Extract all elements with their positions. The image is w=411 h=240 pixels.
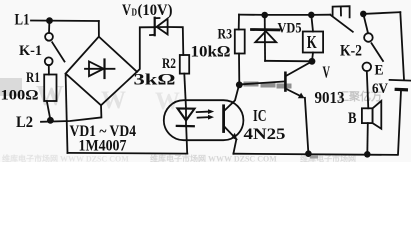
zener diode VD bbox=[154, 18, 156, 36]
resistor R2 bbox=[180, 55, 189, 74]
wire VD5 to collector node bbox=[265, 60, 312, 63]
wire R3 bottom to junction bbox=[238, 54, 240, 85]
relay coil K bbox=[311, 15, 313, 32]
wire battery to rail bbox=[398, 91, 401, 155]
optocoupler U1 body bbox=[164, 100, 244, 140]
phototransistor emitter bbox=[225, 127, 237, 140]
switch K-2 bbox=[363, 14, 368, 33]
svg-text:1M4007: 1M4007 bbox=[79, 138, 127, 155]
svg-text:K: K bbox=[307, 32, 317, 52]
svg-text:V: V bbox=[122, 2, 131, 19]
phototransistor base bar bbox=[222, 106, 225, 132]
watermark dashes middle-right bbox=[246, 84, 289, 86]
transistor base bar bbox=[284, 73, 287, 91]
transistor V 9013 collector bbox=[286, 61, 312, 75]
wire R1 to L2 line bbox=[47, 101, 50, 119]
optocoupler LED bbox=[178, 108, 195, 120]
wire L1 top rail bbox=[31, 20, 99, 23]
node collector junction bbox=[236, 81, 243, 88]
wire opto emitter to rail bbox=[233, 140, 236, 154]
bridge rectifier VD1-VD4 diamond bbox=[66, 37, 137, 106]
transistor emitter bbox=[286, 89, 302, 97]
svg-text:(10V): (10V) bbox=[138, 2, 173, 19]
node emitter/rail bbox=[305, 150, 312, 157]
wire bottom rail left (bridge ground) bbox=[68, 152, 188, 155]
relay contact blade bbox=[330, 15, 353, 32]
svg-text:L1: L1 bbox=[15, 12, 30, 29]
node K coil junction bbox=[308, 12, 315, 19]
svg-text:L2: L2 bbox=[16, 114, 33, 131]
node speaker/rail bbox=[364, 151, 371, 158]
svg-text:4N25: 4N25 bbox=[244, 126, 286, 143]
switch K-1 bbox=[48, 21, 50, 33]
wire bottom rail right (battery ground) bbox=[233, 154, 397, 155]
wire LED cathode to rail bbox=[186, 126, 187, 153]
svg-text:K-1: K-1 bbox=[19, 43, 42, 59]
relay contact bracket bbox=[333, 6, 350, 17]
phototransistor collector bbox=[225, 85, 240, 110]
svg-text:VD5: VD5 bbox=[278, 21, 302, 37]
svg-text:E: E bbox=[375, 63, 384, 79]
svg-text:维库电子市场网 WWW DZSC COM: 维库电子市场网 WWW DZSC COM bbox=[2, 154, 129, 163]
svg-text:D: D bbox=[132, 7, 138, 19]
node junction L1/K-1 bbox=[46, 17, 53, 24]
watermark row middle-left bbox=[0, 78, 382, 115]
speaker B bbox=[362, 108, 373, 123]
svg-text:R1: R1 bbox=[26, 70, 40, 86]
wire emitter to rail bbox=[305, 98, 309, 154]
node K-2 junction bbox=[360, 11, 367, 18]
text VD(10V) bbox=[122, 2, 173, 19]
wire zener to R2 bbox=[168, 27, 184, 55]
svg-text:K-2: K-2 bbox=[340, 43, 362, 60]
wire E to speaker bbox=[367, 71, 369, 108]
diode VD5 bbox=[264, 15, 266, 61]
wire rail to right corner bbox=[363, 12, 400, 14]
wire speaker to rail bbox=[366, 123, 369, 154]
watermark bottom band bbox=[2, 154, 356, 164]
svg-text:W: W bbox=[36, 81, 64, 112]
wire bridge right vertex to zener bbox=[137, 27, 154, 72]
light arrows bbox=[197, 111, 209, 114]
svg-text:10kΩ: 10kΩ bbox=[191, 44, 231, 61]
node VD5 junction bbox=[261, 12, 268, 19]
resistor R3 bbox=[235, 30, 245, 54]
svg-text:B: B bbox=[348, 110, 357, 127]
wire junction to 9013 base bbox=[241, 81, 285, 84]
wire right edge down to battery bbox=[400, 12, 404, 79]
svg-text:6V: 6V bbox=[372, 81, 388, 97]
wire R3 top to rail bbox=[238, 15, 240, 30]
wire L2 to bridge bottom bbox=[41, 105, 101, 122]
svg-text:9013: 9013 bbox=[315, 88, 345, 107]
svg-text:W: W bbox=[101, 87, 126, 114]
battery E 6V plates bbox=[390, 79, 411, 82]
wire R2 to LED anode bbox=[184, 74, 186, 109]
wire K-1 to R1 bbox=[48, 65, 50, 74]
node junction R1/L2 bbox=[47, 117, 54, 124]
resistor R1 bbox=[44, 75, 56, 102]
wire bridge DC- down bbox=[66, 74, 68, 153]
svg-text:R3: R3 bbox=[218, 27, 233, 43]
svg-text:V: V bbox=[323, 62, 331, 81]
svg-text:IC: IC bbox=[253, 106, 267, 125]
node collector/VD5/K junction bbox=[309, 58, 316, 65]
bridge inner diode bbox=[85, 68, 115, 70]
svg-text:100Ω: 100Ω bbox=[1, 88, 39, 104]
svg-text:3kΩ: 3kΩ bbox=[134, 72, 176, 89]
svg-text:R2: R2 bbox=[162, 56, 176, 72]
wire top right rail bbox=[239, 14, 330, 16]
wire top rail to bridge top bbox=[98, 21, 100, 37]
